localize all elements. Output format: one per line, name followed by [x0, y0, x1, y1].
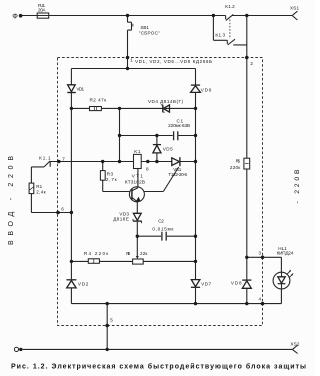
svg-text:220мк·63В: 220мк·63В: [168, 123, 190, 128]
svg-text:VD8: VD8: [231, 280, 242, 285]
svg-text:4: 4: [259, 297, 262, 302]
svg-text:Д818Е: Д818Е: [113, 217, 129, 222]
svg-text:1: 1: [130, 58, 133, 63]
svg-text:22к: 22к: [140, 251, 148, 256]
svg-text:VD4 Д814В(Г): VD4 Д814В(Г): [148, 99, 183, 104]
svg-text:K1.1: K1.1: [39, 155, 51, 160]
svg-text:6: 6: [61, 207, 64, 212]
svg-text:R6: R6: [236, 158, 241, 163]
svg-text:K1.3: K1.3: [215, 33, 225, 38]
svg-text:Рис. 1.2. Электрическая схема: Рис. 1.2. Электрическая схема быстродейс…: [11, 362, 306, 370]
svg-text:5: 5: [110, 317, 113, 322]
svg-text:2: 2: [250, 61, 253, 66]
svg-text:20А: 20А: [38, 7, 46, 12]
svg-text:2,4к: 2,4к: [36, 190, 46, 195]
svg-text:VT1: VT1: [132, 173, 144, 178]
svg-text:0,015мк: 0,015мк: [152, 226, 174, 231]
svg-text:R5: R5: [126, 251, 130, 256]
svg-text:220к: 220к: [230, 165, 241, 170]
svg-text:3: 3: [259, 251, 262, 256]
svg-text:VD1, VD2, VD5...VD8 КД256Б: VD1, VD2, VD5...VD8 КД256Б: [135, 59, 212, 64]
svg-text:VD2: VD2: [78, 281, 89, 286]
svg-text:2,7к: 2,7к: [106, 177, 118, 182]
svg-text:ВВОД - 220В: ВВОД - 220В: [8, 156, 15, 245]
svg-text:VD5: VD5: [163, 146, 173, 151]
svg-text:K1.2: K1.2: [225, 4, 235, 9]
svg-text:XS2: XS2: [290, 341, 299, 346]
svg-text:VD1: VD1: [76, 87, 84, 92]
svg-text:"СБРОС": "СБРОС": [139, 30, 160, 35]
svg-text:R2 47к: R2 47к: [90, 97, 108, 102]
svg-text:K1: K1: [134, 149, 141, 154]
svg-text:КИПД24: КИПД24: [277, 251, 294, 256]
svg-text:- 220В: - 220В: [294, 169, 301, 203]
svg-text:КТ3102В: КТ3102В: [125, 180, 145, 185]
svg-text:С2: С2: [158, 219, 164, 224]
svg-text:XS1: XS1: [290, 6, 299, 11]
svg-text:8: 8: [146, 166, 149, 171]
svg-text:SB1: SB1: [140, 25, 149, 30]
svg-text:Т122-20-6: Т122-20-6: [168, 172, 187, 177]
svg-text:R4 220к: R4 220к: [84, 251, 109, 256]
svg-text:Ф: Ф: [12, 12, 18, 21]
svg-text:7: 7: [62, 156, 65, 161]
svg-text:VD7: VD7: [201, 282, 211, 287]
svg-text:R1: R1: [36, 184, 42, 189]
svg-text:VD6: VD6: [201, 87, 212, 92]
